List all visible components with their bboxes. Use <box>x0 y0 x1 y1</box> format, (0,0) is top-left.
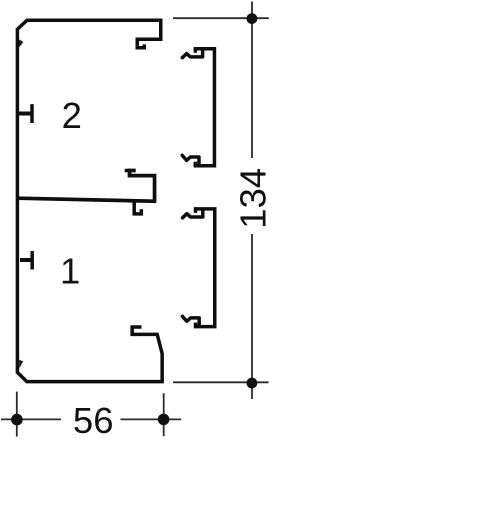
dimension 134: bottom witness line <box>173 381 269 383</box>
cover upper: bottom lip curl <box>182 155 199 164</box>
dimension 56: right dot <box>158 414 170 426</box>
dimension 134: vertical line upper segment <box>251 2 253 159</box>
dimension 56: left dot <box>11 414 23 426</box>
screw-slot marker lower (compartment 1) <box>20 258 31 262</box>
svg-text:134: 134 <box>232 168 273 229</box>
cover upper: top lip curl <box>182 51 202 58</box>
cover upper: top-left stub <box>194 49 198 53</box>
cover lower: bottom-left stub <box>194 323 198 327</box>
screw-slot marker upper (compartment 2) <box>19 112 31 116</box>
dimension 56: line left segment <box>1 418 61 420</box>
divider stub left overhang <box>125 169 130 173</box>
dimension 134: vertical line lower segment <box>251 234 253 399</box>
dimension 56: left witness line <box>16 392 18 437</box>
svg-text:1: 1 <box>60 251 80 292</box>
dimension 56: line right segment <box>121 418 182 420</box>
left wall barb bottom <box>19 360 23 369</box>
svg-text:2: 2 <box>62 95 82 136</box>
main trunking body outline <box>17 20 162 381</box>
divider lower hook <box>134 203 141 214</box>
divider wall between compartments <box>18 171 155 202</box>
cover profile lower: body <box>194 209 215 327</box>
left wall barb top <box>19 40 23 48</box>
dimension 134: bottom dot <box>247 378 258 389</box>
cover lower: top lip curl <box>183 211 203 218</box>
svg-text:56: 56 <box>73 400 114 441</box>
dimension 56: right witness line <box>163 393 165 436</box>
dimension 134: top witness line <box>173 17 269 19</box>
cover upper: bottom-left stub <box>194 162 198 166</box>
dimension 134: top dot <box>247 13 258 24</box>
cover lower: bottom lip curl <box>182 316 199 325</box>
cover lower: top-left stub <box>194 209 198 213</box>
cover profile upper: body <box>194 49 215 166</box>
